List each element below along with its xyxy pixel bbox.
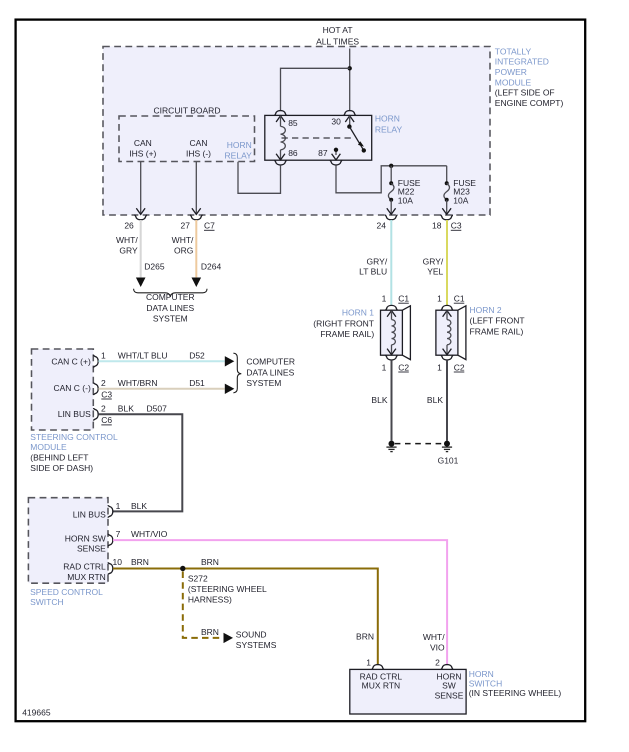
relay pin 87 arrow (335, 152, 337, 155)
svg-text:27: 27 (181, 221, 191, 231)
svg-text:BLK: BLK (131, 501, 147, 511)
svg-text:(BEHIND LEFT: (BEHIND LEFT (30, 453, 88, 463)
svg-text:D507: D507 (147, 403, 168, 413)
relay coil (281, 126, 286, 149)
horn 1 connector arc C1 (385, 305, 398, 310)
svg-text:C6: C6 (101, 415, 112, 425)
svg-text:BLK: BLK (118, 403, 134, 413)
dashed BRN wire to sound systems (183, 572, 220, 638)
svg-text:STEERING CONTROL: STEERING CONTROL (30, 432, 118, 442)
svg-text:1: 1 (437, 294, 442, 304)
svg-text:(STEERING WHEEL: (STEERING WHEEL (188, 584, 267, 594)
svg-text:26: 26 (124, 221, 134, 231)
svg-text:(IN STEERING WHEEL): (IN STEERING WHEEL) (469, 688, 562, 698)
horn 1 body (381, 310, 403, 355)
scs connector arc pin 10 (108, 562, 113, 575)
svg-text:BRN: BRN (201, 627, 219, 637)
wire BLK horn 2 to ground (446, 360, 448, 441)
svg-text:C3: C3 (101, 389, 112, 399)
svg-text:SWITCH: SWITCH (469, 679, 503, 689)
svg-text:D265: D265 (144, 262, 165, 272)
svg-text:LIN BUS: LIN BUS (73, 509, 106, 519)
horn 2 connector arc C1 (441, 305, 454, 310)
svg-text:18: 18 (432, 221, 442, 231)
svg-text:DATA LINES: DATA LINES (146, 303, 194, 313)
svg-text:ALL TIMES: ALL TIMES (316, 36, 359, 46)
svg-text:HORN: HORN (227, 140, 252, 150)
svg-text:MUX RTN: MUX RTN (67, 572, 106, 582)
svg-text:85: 85 (288, 118, 298, 128)
svg-text:BRN: BRN (201, 557, 219, 567)
relay switch blade (347, 124, 351, 128)
junction dot at fuse M22 (389, 164, 393, 168)
svg-text:C1: C1 (398, 294, 409, 304)
svg-text:(LEFT SIDE OF: (LEFT SIDE OF (495, 88, 555, 98)
horn 2 connector arc C2 (441, 355, 454, 360)
svg-text:HORN: HORN (469, 669, 494, 679)
horn switch connector arc pin 1 (372, 665, 385, 670)
wire BLK horn 1 to ground (391, 360, 393, 441)
svg-text:30: 30 (331, 117, 341, 127)
speed control switch box (28, 498, 108, 584)
svg-text:HORN 1: HORN 1 (342, 308, 374, 318)
svg-text:BRN: BRN (131, 557, 149, 567)
svg-text:CAN C (-): CAN C (-) (53, 383, 90, 393)
horn relay box (265, 115, 372, 160)
svg-text:WHT/: WHT/ (172, 235, 194, 245)
wire BRN to horn switch (113, 569, 378, 665)
TIPM module box (103, 47, 490, 216)
wire relay pin 87 to fuse junction (336, 165, 447, 193)
horn 1 connector arc C2 (385, 355, 398, 360)
horn switch connector arc pin 2 (441, 665, 454, 670)
wire WHT/BRN D51 (98, 388, 224, 390)
svg-text:FRAME RAIL): FRAME RAIL) (320, 329, 374, 339)
wire GRY/YEL to horn 2 (446, 220, 448, 306)
svg-text:SYSTEM: SYSTEM (246, 378, 281, 388)
svg-text:1: 1 (366, 658, 371, 668)
scm connector arc pin 2 C3 (94, 383, 99, 396)
svg-text:DATA LINES: DATA LINES (246, 367, 294, 377)
svg-text:MODULE: MODULE (30, 442, 67, 452)
wire branch from junction to relay pin 85 (281, 68, 350, 110)
svg-text:LIN BUS: LIN BUS (58, 409, 91, 419)
svg-text:10A: 10A (398, 196, 413, 206)
svg-text:2: 2 (101, 378, 106, 388)
svg-text:MUX RTN: MUX RTN (362, 681, 401, 691)
ground symbol left (389, 441, 395, 447)
svg-text:YEL: YEL (427, 267, 443, 277)
svg-text:419665: 419665 (22, 707, 51, 717)
relay pin 30 arrow (345, 116, 354, 122)
svg-text:87: 87 (318, 148, 328, 158)
wire CAN IHS (+) pin 26 (140, 162, 142, 215)
svg-text:S272: S272 (188, 574, 208, 584)
svg-text:BLK: BLK (371, 395, 387, 405)
svg-text:SOUND: SOUND (236, 629, 267, 639)
svg-text:RAD CTRL: RAD CTRL (63, 562, 106, 572)
dashed ground link wire (395, 443, 444, 445)
svg-text:CAN: CAN (134, 138, 152, 148)
svg-text:SW: SW (442, 681, 456, 691)
brace computer data lines system 2 (233, 353, 241, 393)
svg-text:SENSE: SENSE (77, 544, 106, 554)
svg-text:C7: C7 (204, 221, 215, 231)
svg-text:7: 7 (116, 529, 121, 539)
svg-text:1: 1 (382, 294, 387, 304)
svg-text:1: 1 (101, 351, 106, 361)
scs connector arc pin 1 (108, 505, 113, 518)
svg-text:1: 1 (437, 362, 442, 372)
svg-text:2: 2 (435, 658, 440, 668)
svg-text:86: 86 (288, 148, 298, 158)
svg-text:GRY/: GRY/ (367, 256, 388, 266)
relay pin 86 arrow (276, 154, 285, 160)
steering control module box (32, 349, 94, 430)
ground symbol right G101 (444, 441, 450, 447)
svg-text:BLK: BLK (427, 395, 443, 405)
relay connector arc pin 86 (274, 160, 287, 165)
svg-text:24: 24 (377, 221, 387, 231)
svg-text:C3: C3 (451, 221, 462, 231)
svg-text:CAN C (+): CAN C (+) (51, 356, 91, 366)
wire B+ feed from HOT AT ALL TIMES to relay pin 30 (349, 49, 351, 111)
svg-text:RELAY: RELAY (375, 124, 403, 134)
wire CAN IHS (-) pin 27 (195, 162, 197, 215)
svg-text:BRN: BRN (356, 631, 374, 641)
svg-text:SWITCH: SWITCH (30, 597, 64, 607)
svg-text:1: 1 (116, 501, 121, 511)
circuit board box (119, 116, 255, 162)
svg-text:MODULE: MODULE (495, 77, 532, 87)
svg-text:SPEED CONTROL: SPEED CONTROL (30, 587, 103, 597)
svg-text:CAN: CAN (190, 138, 208, 148)
TIPM connector arc pin 24 (385, 215, 398, 220)
TIPM connector arc pin 18 (440, 215, 453, 220)
svg-text:SYSTEMS: SYSTEMS (236, 640, 277, 650)
relay pin 85 arrow (276, 116, 285, 122)
svg-text:C1: C1 (454, 294, 465, 304)
svg-text:WHT/LT BLU: WHT/LT BLU (118, 351, 168, 361)
svg-text:HARNESS): HARNESS) (188, 594, 232, 604)
svg-text:D52: D52 (189, 351, 205, 361)
svg-text:HORN SW: HORN SW (65, 534, 106, 544)
svg-text:D51: D51 (189, 378, 205, 388)
wire BLK D507 from scm lin bus to speed control switch (98, 414, 182, 511)
svg-text:TOTALLY: TOTALLY (495, 46, 532, 56)
svg-text:C2: C2 (454, 362, 465, 372)
wire GRY/LT BLU to horn 1 (390, 220, 392, 306)
svg-text:CIRCUIT BOARD: CIRCUIT BOARD (154, 106, 221, 116)
arrow D52 to computer data lines (225, 356, 235, 366)
svg-text:IHS (+): IHS (+) (129, 148, 156, 158)
svg-text:HORN: HORN (375, 114, 400, 124)
wire WHT/ORG (195, 220, 197, 277)
svg-text:(RIGHT FRONT: (RIGHT FRONT (313, 318, 374, 328)
svg-text:SYSTEM: SYSTEM (153, 314, 188, 324)
svg-text:GRY: GRY (119, 245, 138, 255)
wire circuit board HORN RELAY to relay pin 86 (238, 162, 281, 194)
svg-text:HORN 2: HORN 2 (470, 305, 502, 315)
svg-text:10A: 10A (453, 196, 468, 206)
brace computer data lines system (134, 289, 207, 297)
svg-text:10: 10 (113, 557, 123, 567)
horn 1 coil element (387, 311, 396, 317)
relay connector arc pin 87 (330, 160, 343, 165)
arrow D51 to computer data lines (225, 384, 235, 394)
horn 2 coil element (443, 311, 452, 317)
svg-text:G101: G101 (438, 456, 459, 466)
svg-text:IHS (-): IHS (-) (186, 148, 211, 158)
svg-text:WHT/: WHT/ (116, 235, 138, 245)
arrow D265 to computer data lines (136, 278, 146, 288)
svg-text:POWER: POWER (495, 67, 527, 77)
svg-text:INTEGRATED: INTEGRATED (495, 57, 549, 67)
horn switch box (350, 669, 466, 714)
wire WHT/GRY (140, 220, 142, 277)
TIPM connector arc pin 27 (190, 215, 203, 220)
svg-text:COMPUTER: COMPUTER (146, 292, 195, 302)
arrow D264 to computer data lines (192, 278, 202, 288)
fuse M22 (390, 166, 392, 184)
svg-text:ORG: ORG (174, 245, 193, 255)
fuse M23 (446, 166, 448, 184)
svg-text:SIDE OF DASH): SIDE OF DASH) (30, 463, 93, 473)
junction dot S272 (180, 566, 185, 571)
svg-text:SENSE: SENSE (435, 691, 464, 701)
arrow to sound systems (224, 633, 234, 643)
svg-text:VIO: VIO (430, 642, 445, 652)
svg-text:LT BLU: LT BLU (359, 267, 387, 277)
svg-text:1: 1 (382, 362, 387, 372)
wire WHT/LT BLU D52 (98, 360, 224, 362)
scm connector arc pin 2 C6 (94, 408, 99, 421)
relay pin 87 contact dot (334, 148, 338, 152)
wire WHT/VIO to horn switch (113, 540, 447, 665)
scs connector arc pin 7 (108, 534, 113, 547)
svg-text:(LEFT FRONT: (LEFT FRONT (470, 316, 525, 326)
svg-text:ENGINE COMPT): ENGINE COMPT) (495, 98, 564, 108)
svg-text:WHT/: WHT/ (423, 632, 445, 642)
junction dot on B+ feed (348, 66, 352, 70)
relay connector arc pin 85 (274, 111, 287, 116)
svg-text:FRAME RAIL): FRAME RAIL) (470, 326, 524, 336)
scm connector arc pin 1 (94, 355, 99, 368)
svg-text:GRY/: GRY/ (423, 256, 444, 266)
svg-text:D264: D264 (201, 262, 222, 272)
svg-text:WHT/VIO: WHT/VIO (131, 529, 168, 539)
svg-text:RELAY: RELAY (225, 151, 253, 161)
svg-text:2: 2 (101, 403, 106, 413)
svg-text:HOT AT: HOT AT (323, 25, 353, 35)
svg-text:WHT/BRN: WHT/BRN (118, 378, 158, 388)
horn 2 body (436, 310, 458, 355)
TIPM connector arc pin 26 (134, 215, 147, 220)
svg-text:C2: C2 (398, 362, 409, 372)
svg-text:COMPUTER: COMPUTER (246, 357, 295, 367)
relay internal dashed link (282, 137, 354, 139)
relay connector arc pin 30 (343, 111, 356, 116)
